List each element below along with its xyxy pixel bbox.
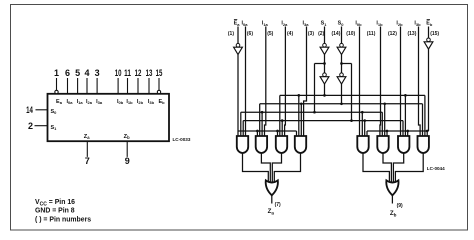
wire I1b data xyxy=(379,27,382,137)
inverter U-Eb xyxy=(427,38,431,42)
pin 11 wire xyxy=(127,78,129,94)
AND gate R0 xyxy=(357,136,368,153)
svg-text:Eb: Eb xyxy=(426,21,433,27)
drop S1-bar to gate L0 xyxy=(240,112,242,136)
pin 4 wire xyxy=(86,78,88,94)
wire AND R0 output to OR xyxy=(363,153,389,182)
svg-text:(6): (6) xyxy=(247,31,253,37)
wire AND L2 output to OR xyxy=(272,153,281,182)
drop S1 to gate R2 xyxy=(404,95,406,136)
svg-text:(11): (11) xyxy=(367,31,376,37)
drop S0 to gate L1 xyxy=(259,104,261,136)
svg-text:I0b: I0b xyxy=(117,99,124,105)
svg-text:LC-0033: LC-0033 xyxy=(173,137,191,142)
wire Ea input xyxy=(237,27,239,44)
svg-text:I0a: I0a xyxy=(242,21,249,27)
wire Eb input xyxy=(428,27,430,38)
svg-text:I0a: I0a xyxy=(67,99,74,105)
rail Eb enable xyxy=(367,130,429,132)
polarity bubble pin 15 xyxy=(157,90,160,93)
wire AND L3 output to OR xyxy=(274,153,300,182)
drop Eb to gate R3 xyxy=(426,131,428,136)
junction S1 source on rail xyxy=(323,94,326,97)
svg-text:Zb: Zb xyxy=(124,134,130,140)
drop Eb to gate R1 xyxy=(386,131,388,136)
svg-text:I2b: I2b xyxy=(396,21,403,27)
svg-text:(14): (14) xyxy=(331,31,340,37)
inverter U-S0a xyxy=(340,43,344,47)
drop Eb to gate R2 xyxy=(407,131,409,136)
svg-text:(2): (2) xyxy=(318,31,324,37)
svg-text:12: 12 xyxy=(135,68,142,78)
drop S0-bar to gate R2 xyxy=(402,121,404,136)
svg-text:(12): (12) xyxy=(388,31,397,37)
svg-text:10: 10 xyxy=(115,68,122,78)
drop S1-bar to gate R0 xyxy=(361,112,363,136)
svg-text:(1): (1) xyxy=(228,31,234,37)
inverter U-Ea xyxy=(236,43,240,47)
rail S1 xyxy=(280,94,425,96)
IC logic symbol box (74153 dual 4-input multiplexer) xyxy=(48,94,170,141)
svg-text:(9): (9) xyxy=(397,203,403,209)
pin 15 wire xyxy=(158,78,160,90)
OR gate Za xyxy=(266,180,278,195)
svg-text:5: 5 xyxy=(75,68,80,78)
svg-text:(15): (15) xyxy=(430,31,439,37)
drop S0-bar to gate R0 xyxy=(364,121,366,136)
rail S1-bar xyxy=(241,111,382,113)
svg-text:15: 15 xyxy=(156,68,163,78)
wire Eb internal vertical xyxy=(428,49,430,131)
drop Ea to gate L2 xyxy=(277,131,279,136)
wire S1 buffered to rail xyxy=(324,84,326,95)
drop S1 to gate L2 xyxy=(279,95,281,136)
drop S0 to gate R3 xyxy=(422,104,424,136)
pin 9 wire (Zb output) xyxy=(126,141,128,157)
svg-text:3: 3 xyxy=(95,68,100,78)
junction S0 source on rail xyxy=(340,102,343,105)
wire I0a data xyxy=(245,27,247,137)
drop S0 to gate R1 xyxy=(384,104,386,136)
svg-text:14: 14 xyxy=(26,105,33,115)
inverter U-S0b xyxy=(340,73,344,77)
drop Ea to gate L3 xyxy=(296,131,298,136)
drop Ea to gate L1 xyxy=(256,131,258,136)
svg-text:S1: S1 xyxy=(50,125,57,131)
svg-text:I3a: I3a xyxy=(96,99,103,105)
rail S0-bar xyxy=(243,120,403,122)
junction S0-bar branch xyxy=(340,62,343,65)
svg-text:I2a: I2a xyxy=(86,99,93,105)
svg-text:11: 11 xyxy=(124,68,131,78)
pin 2 wire xyxy=(35,125,48,127)
AND gate R2 xyxy=(398,136,409,153)
wire S1-bar branch horizontal xyxy=(315,63,325,65)
drop S1-bar to gate R1 xyxy=(381,112,383,136)
AND gate L1 xyxy=(256,136,267,153)
drop S1 to gate L3 xyxy=(298,95,300,136)
svg-text:Eb: Eb xyxy=(158,99,165,105)
rail S0 xyxy=(260,103,423,105)
svg-text:Ea: Ea xyxy=(56,99,63,105)
svg-text:(10): (10) xyxy=(346,31,355,37)
pin 1 wire xyxy=(56,78,58,90)
AND gate R3 xyxy=(417,136,428,153)
pin 3 wire xyxy=(96,78,98,94)
svg-text:(5): (5) xyxy=(267,31,273,37)
svg-text:7: 7 xyxy=(85,156,90,166)
polarity bubble pin 1 xyxy=(55,90,58,93)
svg-text:I3b: I3b xyxy=(414,21,421,27)
wire AND L1 output to OR xyxy=(261,153,270,182)
svg-text:I1b: I1b xyxy=(126,99,133,105)
inverter U-S1a xyxy=(323,43,327,47)
svg-text:GND = Pin 8: GND = Pin 8 xyxy=(35,208,75,215)
svg-text:I2a: I2a xyxy=(281,21,288,27)
wire Za output xyxy=(271,195,273,203)
junction S1-bar branch xyxy=(323,62,326,65)
wire S0-bar branch horizontal xyxy=(342,63,352,65)
wire I2a data xyxy=(284,27,287,137)
pin 12 wire xyxy=(137,78,139,94)
svg-text:I3a: I3a xyxy=(303,21,310,27)
svg-text:I1a: I1a xyxy=(77,99,84,105)
pin 6 wire xyxy=(67,78,69,94)
svg-text:I0b: I0b xyxy=(355,21,362,27)
wire Ea internal vertical xyxy=(237,55,239,132)
drop Ea to gate L0 xyxy=(237,131,239,136)
pin 14 wire xyxy=(36,109,48,111)
AND gate R1 xyxy=(377,136,388,153)
wire I3b data xyxy=(419,27,421,137)
svg-text:13: 13 xyxy=(146,68,153,78)
svg-text:(3): (3) xyxy=(308,31,314,37)
wire I0b data xyxy=(359,27,361,137)
svg-text:I3b: I3b xyxy=(148,99,155,105)
svg-text:( ) = Pin numbers: ( ) = Pin numbers xyxy=(35,217,91,224)
wire AND R1 output to OR xyxy=(383,153,391,182)
wire AND R2 output to OR xyxy=(393,153,403,182)
svg-text:4: 4 xyxy=(84,68,89,78)
svg-text:Ea: Ea xyxy=(234,21,241,27)
drop S0-bar to gate L2 xyxy=(281,121,283,136)
pin 13 wire xyxy=(148,78,150,94)
wire S1-bar vertical xyxy=(324,55,326,73)
inverter U-S1b xyxy=(323,73,327,77)
pin 10 wire xyxy=(117,78,119,94)
svg-text:(13): (13) xyxy=(407,31,416,37)
wire S1-bar down to rail xyxy=(314,64,316,113)
wire I3a data xyxy=(304,27,307,137)
AND gate L2 xyxy=(276,136,287,153)
svg-text:Za: Za xyxy=(84,134,90,140)
svg-text:S0: S0 xyxy=(338,21,345,27)
wire AND L0 output to OR xyxy=(243,153,269,182)
svg-text:2: 2 xyxy=(28,121,33,131)
AND gate L0 xyxy=(237,136,248,153)
wire I1a data xyxy=(265,27,266,137)
drop S1-bar to gate L1 xyxy=(261,112,263,136)
svg-text:9: 9 xyxy=(125,156,130,166)
rail Ea enable xyxy=(238,130,297,132)
pin 7 wire (Za output) xyxy=(86,141,88,157)
wire S0 buffered to rail xyxy=(341,84,343,104)
wire S0 input xyxy=(341,27,343,44)
wire Zb output xyxy=(391,195,393,203)
wire S0-bar vertical xyxy=(341,55,343,73)
svg-text:(4): (4) xyxy=(287,31,293,37)
wire S0-bar down to rail xyxy=(351,64,353,121)
junction S0-bar source on rail xyxy=(350,119,353,122)
pin 5 wire xyxy=(77,78,79,94)
wire S1 input xyxy=(324,27,326,44)
drop S0 to gate L3 xyxy=(300,104,302,136)
svg-text:LC-0044: LC-0044 xyxy=(427,166,445,171)
OR gate Zb xyxy=(386,180,398,195)
svg-text:S0: S0 xyxy=(50,109,57,115)
drop S1 to gate R3 xyxy=(424,95,426,136)
svg-text:1: 1 xyxy=(54,68,59,78)
drop Eb to gate R0 xyxy=(366,131,368,136)
wire I2b data xyxy=(400,27,402,137)
drop S0-bar to gate L0 xyxy=(242,121,244,136)
svg-text:6: 6 xyxy=(65,68,70,78)
svg-text:I2b: I2b xyxy=(137,99,144,105)
svg-text:(7): (7) xyxy=(275,202,281,208)
svg-text:I1a: I1a xyxy=(262,21,269,27)
junction S1-bar source on rail xyxy=(313,111,316,114)
wire AND R3 output to OR xyxy=(395,153,423,182)
svg-text:I1b: I1b xyxy=(376,21,383,27)
AND gate L3 xyxy=(295,136,306,153)
svg-text:S1: S1 xyxy=(321,21,328,27)
